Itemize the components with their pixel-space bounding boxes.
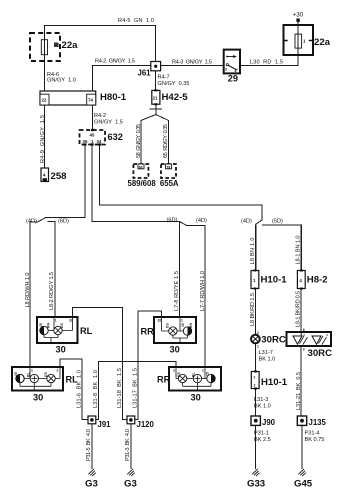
ground G3 right — [127, 469, 134, 476]
svg-text:J120: J120 — [137, 420, 155, 429]
svg-text:3: 3 — [254, 384, 256, 388]
svg-text:22: 22 — [42, 98, 47, 103]
svg-text:655A: 655A — [160, 179, 179, 188]
svg-text:L8 BK/RD 1.5: L8 BK/RD 1.5 — [250, 293, 256, 326]
wire lower RR pin2 ground to J91 right — [96, 361, 177, 419]
svg-text:G3: G3 — [85, 479, 98, 490]
svg-text:(4D): (4D) — [26, 219, 37, 225]
svg-text:22a: 22a — [62, 40, 79, 51]
svg-text:P31-5 BK 4.0: P31-5 BK 4.0 — [86, 429, 92, 461]
svg-text:1: 1 — [31, 369, 33, 373]
svg-text:H80-1: H80-1 — [100, 92, 127, 103]
junction J90 — [251, 416, 276, 427]
svg-text:L8-1 BK/RD 0.5: L8-1 BK/RD 0.5 — [296, 291, 302, 327]
svg-text:6: 6 — [303, 328, 305, 332]
svg-text:2: 2 — [57, 369, 59, 373]
svg-text:15: 15 — [206, 372, 210, 376]
svg-text:65 RD/GY 0.35: 65 RD/GY 0.35 — [163, 124, 169, 158]
svg-text:15: 15 — [39, 323, 43, 327]
svg-text:BL: BL — [192, 372, 196, 377]
svg-text:RH: RH — [47, 323, 51, 328]
svg-text:30: 30 — [191, 393, 201, 403]
svg-text:+30: +30 — [293, 11, 304, 18]
svg-text:L8 RD/WH 1.0: L8 RD/WH 1.0 — [25, 273, 31, 308]
svg-text:589/608: 589/608 — [128, 179, 157, 188]
svg-text:DS: DS — [177, 372, 181, 377]
wire lower RL pin2 ground to J91 left — [60, 359, 88, 420]
svg-text:60: 60 — [139, 165, 143, 169]
lamp unit RL upper (30) — [37, 317, 78, 343]
connector H8-2 — [297, 271, 305, 289]
svg-text:P31-1: P31-1 — [254, 431, 269, 437]
svg-text:H8-2: H8-2 — [307, 275, 328, 286]
svg-text:30: 30 — [56, 345, 66, 355]
svg-text:(5D): (5D) — [272, 219, 283, 225]
wire 632 pin35 down to left split — [30, 145, 85, 368]
wire L31-3 H10-1 to J90 — [255, 389, 257, 416]
svg-text:35: 35 — [83, 139, 88, 144]
svg-text:R4-2: R4-2 — [94, 113, 106, 119]
fuse 22a top-right — [284, 19, 314, 56]
component 258 — [41, 168, 49, 182]
svg-text:BK 0.75: BK 0.75 — [305, 437, 325, 443]
svg-text:RR: RR — [141, 327, 155, 337]
svg-text:R4-3 GN/GY 1.5: R4-3 GN/GY 1.5 — [172, 60, 212, 66]
wire L30 RD switch 29 to fuse 22a right — [240, 22, 298, 66]
svg-text:L8-2 RD/GY 1.5: L8-2 RD/GY 1.5 — [49, 272, 55, 310]
svg-text:J135: J135 — [309, 418, 327, 427]
svg-text:2: 2 — [257, 331, 259, 335]
svg-text:3: 3 — [225, 68, 227, 72]
unit 589/608 (dashed box) — [133, 164, 148, 178]
svg-text:L31-21 BK 0.5: L31-21 BK 0.5 — [296, 372, 302, 410]
svg-text:30RC: 30RC — [261, 335, 286, 346]
svg-text:1: 1 — [303, 39, 306, 44]
svg-text:RL: RL — [66, 375, 79, 385]
connector H10-1 second — [251, 372, 259, 389]
lamp unit RR lower (30) — [169, 367, 221, 391]
svg-text:GN/GY 1.5: GN/GY 1.5 — [94, 119, 123, 125]
svg-text:74: 74 — [88, 98, 93, 103]
svg-text:L7-8 RD/YE 1.5: L7-8 RD/YE 1.5 — [174, 271, 180, 311]
svg-text:32: 32 — [158, 319, 162, 323]
wire R4-6 fuse 22a bottom to H80-1 pin 22 — [44, 33, 46, 91]
bulb 30RC — [251, 335, 260, 344]
svg-text:G45: G45 — [294, 479, 313, 490]
svg-text:15: 15 — [14, 372, 18, 376]
wire L8-1 BN col2 split to H8-2 — [300, 225, 302, 271]
svg-text:R4-2 GN/GY 1.5: R4-2 GN/GY 1.5 — [95, 59, 135, 65]
svg-text:RR: RR — [157, 375, 171, 385]
svg-text:34: 34 — [97, 139, 102, 144]
unit 632 (dashed box) — [80, 130, 106, 145]
svg-text:G33: G33 — [247, 479, 265, 490]
junction J120 — [127, 416, 155, 429]
wire L8 BN col1 split to H10-1 — [255, 224, 257, 270]
svg-text:2: 2 — [173, 369, 175, 373]
svg-text:R4-7: R4-7 — [158, 75, 170, 81]
svg-text:3: 3 — [303, 348, 305, 352]
lamp unit RR upper (30) — [154, 317, 196, 343]
wire branch L8-2 to upper RL lamp — [48, 221, 56, 317]
svg-text:1: 1 — [257, 345, 259, 349]
wire L31-7 bulb 30RC to H10-1 second — [255, 343, 257, 371]
svg-text:GN/GY 1.0: GN/GY 1.0 — [47, 78, 76, 84]
ground G33 — [252, 469, 259, 476]
connector H10-1 — [251, 271, 259, 289]
svg-text:15: 15 — [181, 323, 185, 327]
svg-text:L31-18 BK 1.5: L31-18 BK 1.5 — [117, 368, 123, 408]
svg-text:45: 45 — [90, 133, 95, 138]
fuse 22a top-left (dashed box) — [30, 33, 60, 61]
svg-text:L30 RD 1.5: L30 RD 1.5 — [250, 60, 283, 66]
svg-text:BK 1.0: BK 1.0 — [254, 404, 271, 410]
svg-text:DS: DS — [44, 372, 48, 377]
svg-text:1: 1 — [202, 369, 204, 373]
svg-text:BK 1.0: BK 1.0 — [259, 357, 276, 363]
svg-text:L31-3: L31-3 — [254, 397, 268, 403]
svg-text:32: 32 — [69, 319, 73, 323]
svg-text:(4D): (4D) — [196, 218, 207, 224]
svg-text:J91: J91 — [98, 420, 112, 429]
svg-text:79: 79 — [166, 165, 170, 169]
junction J135 — [297, 416, 326, 427]
svg-text:L31-8 BK 1.0: L31-8 BK 1.0 — [93, 370, 99, 408]
svg-text:1: 1 — [181, 319, 183, 323]
svg-text:2: 2 — [254, 376, 256, 380]
svg-text:J61: J61 — [138, 69, 152, 78]
svg-text:(4D): (4D) — [241, 219, 252, 225]
svg-text:R4-9 GN/GY 1.5: R4-9 GN/GY 1.5 — [40, 115, 46, 163]
svg-text:(6D): (6D) — [58, 219, 69, 225]
svg-text:P31-4: P31-4 — [305, 431, 320, 437]
wire J91 to ground G3 — [91, 424, 93, 470]
svg-text:30: 30 — [170, 345, 180, 355]
svg-text:GN/GY 0.35: GN/GY 0.35 — [158, 81, 190, 87]
switch 29 — [224, 50, 240, 74]
svg-text:L31-17 BK 1.5: L31-17 BK 1.5 — [132, 368, 138, 408]
svg-text:H10-1: H10-1 — [261, 275, 288, 286]
svg-text:1: 1 — [55, 319, 57, 323]
splice under H42-5 — [141, 104, 169, 164]
ground G45 — [298, 469, 305, 476]
wire R4-2/R4-3 horizontal H80-1 pin74 to J61 to switch 29 — [93, 66, 224, 92]
svg-text:29: 29 — [228, 74, 238, 84]
svg-text:J90: J90 — [262, 418, 276, 427]
svg-text:30: 30 — [33, 393, 43, 403]
wire R4-2 H80-1 pin74 down to 632 pin45 — [92, 105, 94, 130]
svg-text:58 GN/GY 0.35: 58 GN/GY 0.35 — [136, 124, 142, 158]
unit 655A (dashed box) — [161, 164, 176, 178]
svg-text:BL: BL — [27, 372, 31, 377]
svg-text:(6D): (6D) — [167, 218, 178, 224]
svg-text:DS: DS — [60, 323, 64, 328]
svg-text:RH: RH — [189, 323, 193, 328]
svg-text:H42-5: H42-5 — [162, 92, 189, 103]
connector H80-1 — [40, 91, 96, 105]
svg-text:L7-7 RD/WH 1.0: L7-7 RD/WH 1.0 — [200, 271, 206, 311]
lamp unit RL lower (30) — [12, 367, 63, 391]
wire L8-1 BK/RD H8-2 to 30RC LED box — [300, 289, 302, 333]
svg-text:21: 21 — [153, 96, 158, 101]
svg-text:BK 2.5: BK 2.5 — [254, 437, 271, 443]
svg-text:L8 BN 1.0: L8 BN 1.0 — [250, 238, 256, 265]
svg-text:L31-7: L31-7 — [259, 350, 273, 356]
wire J120 to ground G3 — [130, 424, 132, 470]
svg-text:30RC: 30RC — [308, 348, 333, 359]
connector H42-5 — [152, 90, 160, 104]
wire upper RR ground to J120 right — [135, 311, 162, 420]
junction J61 — [138, 62, 161, 78]
svg-text:22a: 22a — [314, 37, 331, 48]
wire R4-5 GN top line from fuse 22a to J61 — [45, 26, 156, 62]
wire through right fuse — [297, 25, 299, 55]
svg-text:R4-5 GN 1.0: R4-5 GN 1.0 — [118, 18, 154, 24]
svg-text:H10-1: H10-1 — [261, 377, 288, 388]
svg-text:632: 632 — [108, 132, 123, 142]
wire P31-4 J135 to G45 — [301, 426, 303, 470]
junction J91 — [88, 416, 111, 429]
wire P31-1 J90 to G33 — [255, 426, 257, 470]
svg-text:RL: RL — [80, 326, 93, 336]
wire 632 pin34 to right split — [99, 145, 301, 276]
30RC LED box — [287, 332, 332, 346]
wire upper RL ground to J120 left — [73, 308, 128, 420]
ground G3 left — [88, 469, 95, 476]
svg-text:DS: DS — [166, 323, 170, 328]
svg-text:G3: G3 — [124, 479, 137, 490]
svg-text:L8-1 BN 1.0: L8-1 BN 1.0 — [296, 236, 302, 265]
wire L8 BK/RD H10-1 to bulb 30RC — [255, 289, 257, 335]
wire R4-9 H80-1 pin22 down to 258 — [44, 105, 46, 168]
wire 632 pin1 to middle split — [92, 145, 205, 368]
wire L31-21 30RC box to J135 — [300, 346, 302, 416]
svg-text:P31-3 BK 4.0: P31-3 BK 4.0 — [125, 429, 131, 461]
wire R4-7 J61 down to H42-5 — [155, 71, 157, 91]
svg-text:258: 258 — [51, 171, 68, 182]
svg-text:1: 1 — [91, 139, 94, 144]
svg-text:4: 4 — [235, 70, 237, 74]
